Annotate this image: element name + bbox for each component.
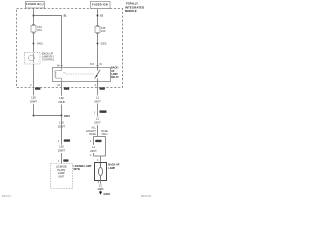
wire label L1 right [94, 95, 102, 103]
wire label L50 left [30, 96, 38, 104]
fuse F2 [95, 26, 106, 34]
node splice S316 [61, 115, 63, 117]
svg-text:TOTALLY: TOTALLY [126, 2, 138, 6]
fuse F1 [31, 25, 42, 34]
connector C1 label [35, 87, 40, 89]
wire relay coil out, module pin 10 [61, 82, 63, 116]
svg-text:INTEGRATED: INTEGRATED [125, 5, 144, 9]
wire from box B down [97, 9, 99, 26]
svg-text:G304: G304 [104, 192, 111, 196]
svg-text:20VT: 20VT [94, 99, 101, 103]
wire into lamp [100, 156, 102, 163]
svg-text:20VT: 20VT [90, 149, 97, 153]
ground G304 [99, 192, 102, 195]
wire mid down [61, 116, 63, 164]
svg-text:CONTROL: CONTROL [42, 59, 55, 62]
svg-text:S416: S416 [37, 43, 43, 46]
svg-text:8W-51-02: 8W-51-02 [141, 196, 152, 198]
svg-text:L1: L1 [96, 95, 99, 99]
wire label L1 right2 [94, 117, 102, 125]
svg-text:S305: S305 [101, 43, 107, 46]
relay K1 name [111, 67, 119, 80]
wire driver to module pin 2 [33, 64, 35, 96]
wire join bar [94, 155, 106, 157]
svg-text:LAMP: LAMP [108, 167, 115, 170]
svg-text:10A: 10A [101, 30, 106, 33]
svg-text:RELAY: RELAY [111, 76, 119, 79]
wire label L50 mid [58, 121, 66, 129]
wire left drop to splice [33, 104, 35, 116]
wire relay switch out, module pin 4 [97, 82, 99, 111]
module U1 dashed outline (Totally Integrated Power Module) [17, 9, 123, 88]
svg-text:20BK: 20BK [97, 188, 103, 191]
node junction dot left [33, 115, 35, 117]
svg-text:L1: L1 [92, 145, 95, 149]
module U1 name label [125, 2, 144, 14]
relay K1 pin 30 tick [96, 65, 98, 67]
svg-text:BASE: BASE [89, 133, 96, 136]
node splice S3 [97, 15, 99, 17]
wire fuse F2 to relay [97, 33, 99, 68]
wire label branch [90, 145, 98, 153]
wire split bar [94, 136, 106, 138]
wire label L50 coil out [58, 96, 66, 105]
svg-text:20WT: 20WT [58, 149, 66, 153]
connector box B (FUSED IGN) [91, 2, 111, 9]
license lamp name [74, 165, 92, 171]
svg-text:8W-51-2: 8W-51-2 [2, 196, 11, 198]
node splice S1 dot [33, 15, 35, 17]
relay K1 coil [55, 68, 62, 82]
wire branch right [105, 137, 107, 157]
svg-text:87A: 87A [90, 63, 95, 66]
wire jumper to relay coil [34, 16, 62, 68]
relay K1 box [53, 68, 111, 82]
svg-text:FUSED B(+): FUSED B(+) [26, 2, 44, 6]
wire fuse F1 to splice S2 [33, 32, 35, 52]
svg-text:L50: L50 [59, 145, 64, 149]
svg-text:FUSED IGN: FUSED IGN [92, 2, 108, 6]
back-up lamp box [95, 163, 107, 181]
wire branch left [93, 137, 95, 157]
svg-text:20VT: 20VT [94, 121, 101, 125]
svg-text:L1: L1 [96, 117, 99, 121]
wire from box A down [33, 8, 35, 25]
relay K1 switch [95, 68, 101, 82]
relay K1 actuator dashed link [66, 73, 94, 75]
svg-text:L50: L50 [31, 96, 36, 100]
svg-text:UNIT: UNIT [58, 176, 64, 179]
wire horizontal join [34, 115, 62, 117]
variant label left [86, 127, 96, 137]
connector C2 label [64, 87, 69, 89]
wire right down [97, 110, 99, 137]
node splice S2 [33, 43, 35, 45]
wire label L50 mid2 [58, 145, 66, 153]
connector C3 label [100, 87, 105, 89]
svg-text:20A: 20A [37, 29, 42, 32]
svg-text:L50: L50 [59, 96, 64, 100]
wire label Z1 [97, 184, 104, 191]
svg-text:MODULE: MODULE [125, 9, 137, 13]
connector box A (FUSED B+) [26, 2, 45, 9]
driver Q1 dashed box [25, 53, 55, 65]
svg-text:20WT: 20WT [30, 100, 38, 104]
license lamp dashed box [51, 164, 73, 189]
svg-text:20LB: 20LB [58, 100, 64, 104]
back-up lamp name [108, 163, 119, 169]
node splice S4 [97, 43, 99, 45]
wire lamp to ground [100, 181, 102, 192]
relay K1 pin 86 tick [60, 65, 62, 67]
variant label right [102, 130, 109, 136]
svg-text:S316: S316 [64, 115, 70, 118]
svg-text:(MTX): (MTX) [74, 168, 81, 171]
svg-text:ONLY: ONLY [102, 133, 109, 136]
